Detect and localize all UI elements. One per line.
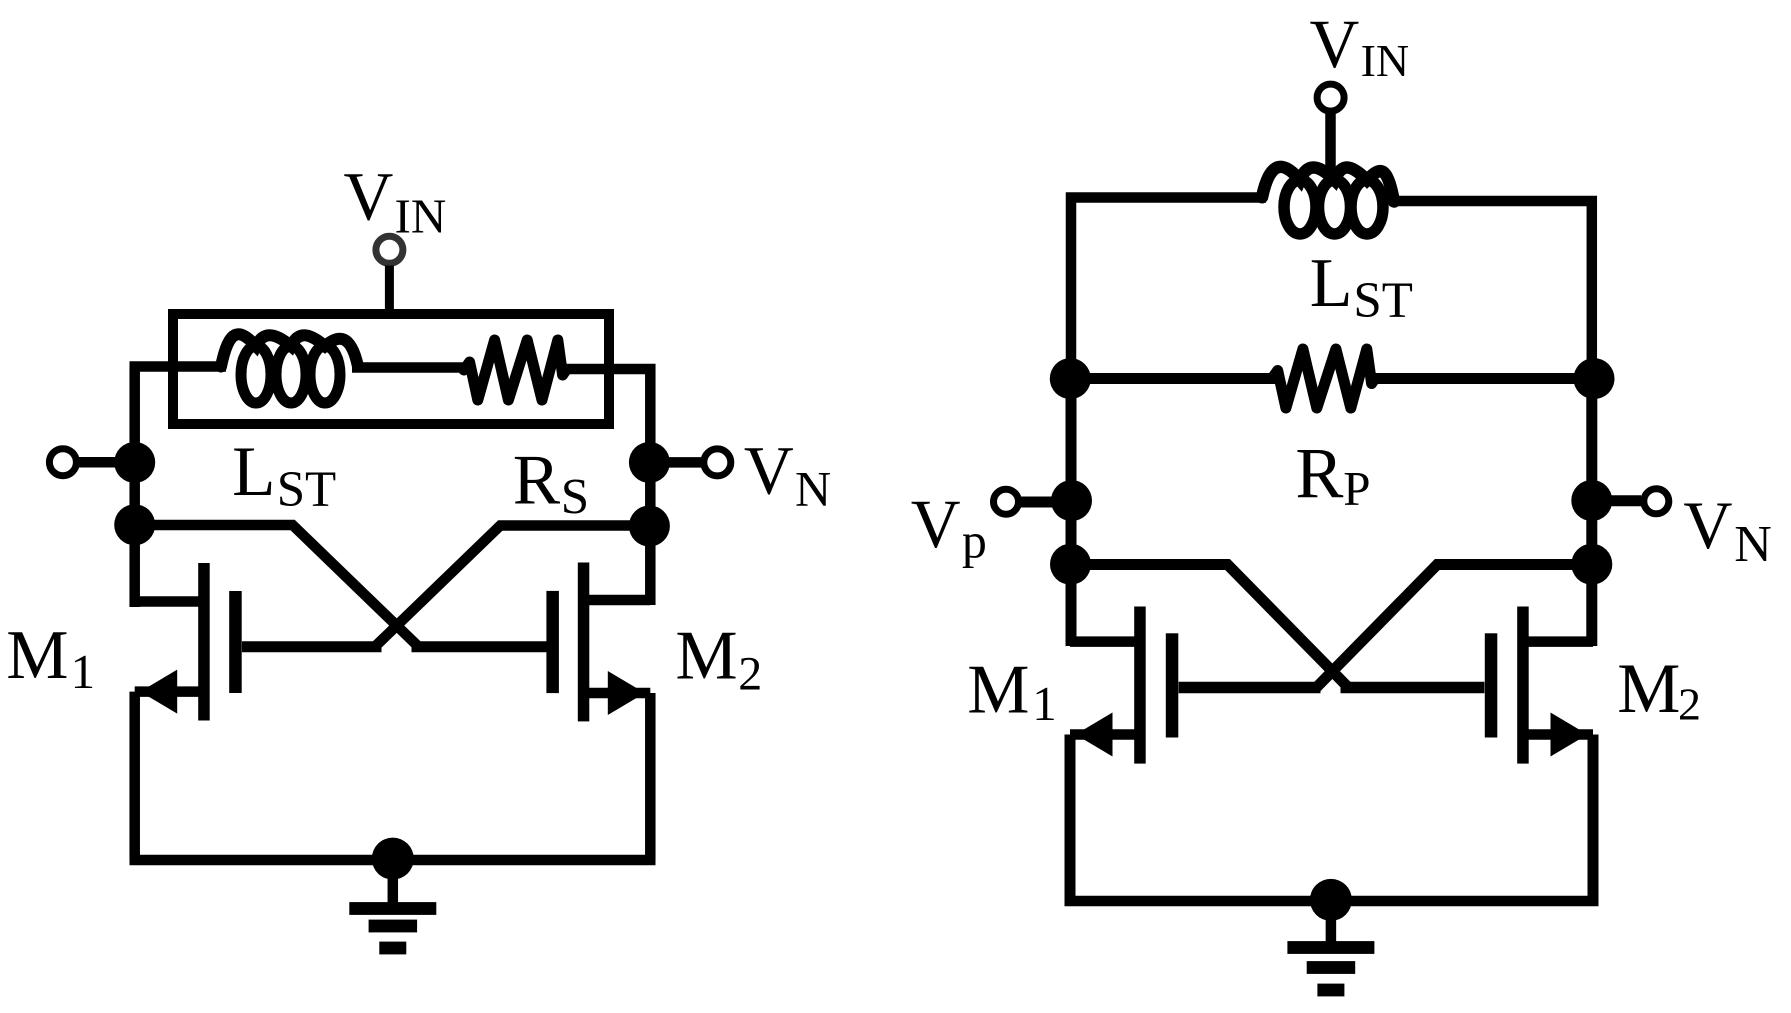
wire top rail right segment (right circuit) [1390, 201, 1592, 383]
wire VIN stub (right circuit) [1325, 114, 1336, 179]
label VIN (left circuit) [344, 159, 447, 244]
svg-text:V: V [911, 486, 961, 562]
svg-text:1: 1 [71, 644, 96, 699]
svg-text:M: M [6, 617, 68, 694]
wire left rail middle (right circuit) [1066, 375, 1077, 646]
wire cross-couple from node B2 to M1 gate (left circuit) [373, 526, 649, 649]
svg-text:L: L [1310, 245, 1353, 322]
transistor M1 (left circuit) [135, 563, 242, 721]
svg-text:P: P [1343, 461, 1370, 516]
label LST value (left circuit) [232, 433, 336, 518]
wire rail to RP left (right circuit) [1070, 373, 1276, 384]
label LST value (right circuit) [1310, 245, 1413, 329]
wire gate line M1 (left circuit) [242, 641, 382, 652]
wire VN stub (right circuit) [1602, 495, 1641, 506]
wire cross-couple from node A2 to M2 gate (left circuit) [135, 525, 421, 648]
transistor M2 (right circuit) [1485, 607, 1593, 764]
resistor RP (right circuit) [1272, 349, 1375, 408]
svg-text:V: V [1310, 6, 1360, 82]
svg-text:V: V [344, 159, 394, 235]
svg-text:N: N [1734, 516, 1772, 573]
node terminal open circle Vp (right circuit) [994, 489, 1019, 514]
svg-text:p: p [962, 513, 987, 569]
wire M1 source down (right circuit) [1065, 735, 1076, 902]
svg-text:N: N [795, 461, 831, 517]
wire RP to right rail (right circuit) [1371, 373, 1594, 384]
node junction dot B1 (left circuit) [629, 442, 670, 483]
node VIN terminal (left circuit) [376, 236, 403, 263]
svg-text:IN: IN [395, 188, 447, 243]
svg-text:S: S [561, 470, 589, 526]
ground (left circuit) [349, 838, 436, 955]
ground (right circuit) [1287, 879, 1374, 996]
label VIN (right circuit) [1310, 6, 1410, 86]
resistor RS (left circuit) [464, 340, 566, 400]
node junction dot D1 (right circuit) [1574, 358, 1615, 399]
label RS value (left circuit) [513, 441, 589, 525]
label RP value (right circuit) [1295, 433, 1370, 516]
label VN (right circuit) [1683, 487, 1771, 573]
wire left rail down (left circuit) [129, 367, 140, 608]
terminal stub left (left circuit) [79, 457, 120, 468]
svg-text:M: M [1617, 650, 1680, 728]
label VN (left circuit) [744, 433, 831, 517]
label M1 (left circuit) [6, 617, 95, 699]
wire gate line M1 (right circuit) [1179, 682, 1321, 694]
wire M1 source down (left circuit) [129, 692, 140, 860]
node junction dot A1 (left circuit) [114, 442, 155, 483]
svg-text:ST: ST [1353, 273, 1413, 329]
node terminal open circle left (left circuit) [49, 449, 76, 476]
svg-text:1: 1 [1032, 676, 1057, 731]
label M2 (right circuit) [1617, 650, 1701, 729]
svg-text:V: V [1683, 487, 1732, 563]
node junction dot D3 (right circuit) [1571, 544, 1612, 585]
svg-text:M: M [967, 652, 1029, 729]
wire bottom rail (right circuit) [1065, 896, 1599, 907]
node junction dot D2 (right circuit) [1571, 480, 1612, 521]
node junction dot A2 (left circuit) [114, 504, 155, 545]
node VIN terminal (right circuit) [1317, 84, 1344, 111]
svg-text:L: L [232, 433, 275, 511]
wire Vp stub (right circuit) [1021, 497, 1060, 508]
label Vp (right circuit) [911, 486, 987, 568]
wire cross-couple from node C3 to M2 gate (right circuit) [1071, 565, 1350, 690]
wire RS to right corner (left circuit) [562, 369, 650, 605]
node junction dot B2 (left circuit) [629, 506, 670, 547]
svg-text:2: 2 [738, 647, 762, 700]
wire VIN stub (left circuit) [385, 266, 394, 319]
svg-text:R: R [1295, 433, 1343, 513]
node junction dot C3 (right circuit) [1050, 544, 1091, 585]
svg-text:R: R [513, 441, 561, 519]
wire M2 source down (left circuit) [645, 693, 656, 860]
wire bottom rail (left circuit) [130, 855, 656, 866]
wire left through-line into box (left circuit) [130, 361, 227, 372]
wire gate line M2 (left circuit) [412, 641, 547, 652]
node terminal open circle VN (right circuit) [1644, 489, 1669, 514]
inductor LST (right circuit) [1262, 167, 1394, 234]
svg-text:2: 2 [1678, 678, 1701, 729]
wire M2 source down (right circuit) [1588, 735, 1599, 902]
wire VN stub (left circuit) [660, 457, 701, 468]
box around LST and RS (left circuit tank) [173, 314, 609, 424]
wire gate line M2 (right circuit) [1341, 682, 1485, 694]
node terminal open circle VN (left circuit) [704, 449, 731, 476]
wire right rail middle (right circuit) [1586, 375, 1597, 646]
label M2 (left circuit) [675, 618, 762, 701]
svg-text:ST: ST [277, 462, 337, 518]
svg-text:IN: IN [1361, 35, 1410, 86]
svg-text:M: M [675, 618, 737, 695]
transistor M1 (right circuit) [1070, 607, 1178, 764]
inductor LST (left circuit) [221, 334, 358, 403]
wire top rail left segment (right circuit) [1071, 198, 1266, 384]
wire between LST and RS (left circuit) [352, 362, 468, 373]
svg-text:V: V [744, 433, 794, 509]
wire cross-couple from node D3 to M1 gate (right circuit) [1315, 565, 1592, 690]
transistor M2 (left circuit) [546, 563, 650, 722]
node junction dot C1 (right circuit) [1050, 358, 1091, 399]
node junction dot C2 (right circuit) [1051, 480, 1092, 521]
label M1 (right circuit) [967, 652, 1056, 732]
